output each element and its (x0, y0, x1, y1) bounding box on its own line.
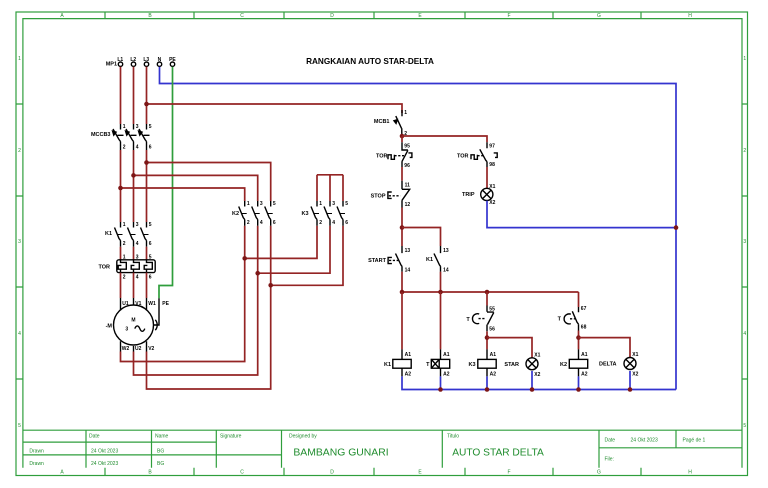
svg-text:11: 11 (405, 183, 411, 189)
node control tap to TOR 97 branch (400, 134, 405, 139)
svg-text:6: 6 (273, 220, 276, 226)
svg-text:Signature: Signature (220, 434, 242, 440)
wire tap L3 to K2 pole 5 (147, 163, 271, 202)
node bus K3 coil (485, 387, 490, 392)
wire T67 to K2 coil (578, 331, 580, 350)
svg-text:-M: -M (106, 324, 113, 330)
svg-text:6: 6 (149, 144, 152, 150)
svg-text:M: M (131, 318, 135, 324)
frame column letters bottom (60, 470, 692, 476)
frame row numbers left (18, 56, 21, 429)
wire PE to motor frame (black) (154, 298, 159, 330)
node W2/K3 (242, 256, 247, 261)
wire control rail (402, 291, 579, 293)
wire rail down to K1 coil (401, 292, 403, 349)
svg-text:A2: A2 (405, 371, 412, 377)
wire branch to K1 aux contact (402, 228, 441, 247)
wire PE (green) (159, 67, 173, 299)
wire motor U2 to K2 pole 4 (134, 226, 258, 375)
svg-text:BAMBANG GUNARI: BAMBANG GUNARI (293, 447, 388, 458)
svg-text:Date: Date (605, 437, 616, 443)
wire START to rail node (401, 272, 403, 292)
svg-text:F: F (507, 470, 510, 476)
svg-text:D: D (330, 470, 334, 476)
frame row ticks left (16, 104, 23, 379)
node rail at START (400, 290, 405, 295)
contactor K1 (105, 222, 152, 247)
node tap L3 (144, 160, 149, 165)
contactor K2 (delta) (232, 201, 276, 226)
svg-text:4: 4 (260, 220, 263, 226)
wire L3 tap to control circuit (147, 104, 403, 113)
wire branch to K3 pole 2 (245, 226, 317, 259)
lamp TRIP (462, 167, 496, 206)
svg-text:4: 4 (136, 275, 139, 281)
svg-text:5: 5 (345, 201, 348, 207)
thermal overload relay TOR (98, 254, 155, 280)
svg-text:5: 5 (149, 222, 152, 228)
svg-text:G: G (597, 13, 601, 19)
svg-text:K2: K2 (232, 211, 239, 217)
svg-text:A1: A1 (490, 352, 497, 358)
svg-text:A1: A1 (443, 352, 450, 358)
svg-text:1: 1 (123, 254, 126, 260)
coil K3 (468, 349, 496, 377)
svg-text:STAR: STAR (504, 362, 519, 368)
svg-text:TOR: TOR (98, 264, 110, 270)
wire branch to TOR 97 (402, 136, 487, 142)
node tap L1 (118, 186, 123, 191)
svg-text:K2: K2 (560, 362, 567, 368)
svg-text:BG: BG (157, 461, 164, 467)
svg-text:2: 2 (18, 148, 21, 154)
svg-text:13: 13 (443, 248, 449, 254)
svg-text:6: 6 (149, 275, 152, 281)
contact T 67-68 timed (558, 306, 587, 331)
svg-text:6: 6 (149, 241, 152, 247)
wire coils to neutral bus (blue) (402, 371, 676, 390)
svg-text:3: 3 (136, 124, 139, 130)
frame column ticks top (105, 12, 641, 19)
svg-text:RANGKAIAN AUTO STAR-DELTA: RANGKAIAN AUTO STAR-DELTA (306, 57, 434, 66)
svg-text:MCB1: MCB1 (374, 119, 390, 125)
wire K1 aux to rail (440, 272, 442, 292)
svg-text:V2: V2 (148, 346, 154, 352)
svg-text:C: C (240, 470, 244, 476)
wire T55 to K3 coil (486, 331, 488, 349)
svg-text:K3: K3 (468, 362, 475, 368)
wire TOR to motor V1 (133, 273, 135, 298)
svg-text:5: 5 (149, 124, 152, 130)
node L3 control tap (144, 102, 149, 107)
wire branch to K3 pole 4 (258, 226, 330, 273)
svg-text:3: 3 (260, 201, 263, 207)
svg-text:3: 3 (125, 327, 128, 333)
wire L1 to MCCB3 (120, 67, 122, 124)
contactor K3 (star) (301, 201, 348, 226)
svg-text:98: 98 (489, 162, 495, 168)
svg-text:K1: K1 (426, 257, 433, 263)
svg-text:BG: BG (157, 448, 164, 454)
node V2/K3 (268, 283, 273, 288)
breaker MCCB3 (91, 124, 152, 150)
node bus T coil (438, 387, 443, 392)
svg-text:3: 3 (136, 254, 139, 260)
wire MCCB3 to K1 phase 1 (120, 150, 122, 222)
svg-text:MP1: MP1 (106, 62, 117, 68)
frame row ticks right (742, 104, 748, 379)
svg-text:A2: A2 (581, 371, 588, 377)
wire TRIP to neutral (blue) (487, 201, 676, 228)
wire MCCB3 to K1 phase 3 (146, 150, 148, 222)
wire motor V2 to K2 pole 6 (147, 226, 271, 389)
lamp DELTA (599, 352, 639, 378)
svg-text:K1: K1 (105, 231, 112, 237)
coil K2 (560, 349, 588, 377)
svg-text:14: 14 (443, 267, 449, 273)
contact TOR 97-98 (457, 142, 497, 168)
svg-text:STOP: STOP (371, 194, 386, 200)
title block grid (23, 430, 742, 468)
svg-text:A2: A2 (490, 371, 497, 377)
svg-text:Date: Date (89, 434, 100, 440)
contact T 55-56 timed (466, 306, 495, 333)
svg-text:X1: X1 (632, 352, 638, 358)
wire K1 to TOR (121, 247, 147, 260)
wire N neutral bus (blue) (160, 67, 677, 390)
breaker MCB1 (374, 110, 407, 137)
node U2/K3 (255, 271, 260, 276)
svg-text:95: 95 (404, 144, 410, 150)
svg-text:H: H (688, 470, 692, 476)
frame column ticks bottom (105, 468, 641, 476)
svg-text:H: H (688, 13, 692, 19)
wire branch to STAR lamp (487, 338, 532, 358)
node rail at T contact (485, 290, 490, 295)
svg-text:1: 1 (18, 56, 21, 62)
svg-text:3: 3 (18, 239, 21, 245)
coil T (timer) (426, 349, 450, 377)
svg-text:TOR: TOR (376, 153, 388, 159)
svg-text:3: 3 (743, 239, 746, 245)
lamp STAR (504, 352, 540, 378)
svg-text:Name: Name (155, 434, 169, 440)
svg-text:1: 1 (247, 201, 250, 207)
svg-text:13: 13 (405, 248, 411, 254)
svg-text:A1: A1 (405, 352, 412, 358)
node DELTA lamp branch (576, 335, 581, 340)
pushbutton STOP (371, 181, 411, 208)
svg-text:Drawn: Drawn (29, 448, 44, 454)
svg-text:F: F (507, 13, 510, 19)
svg-text:U2: U2 (135, 346, 142, 352)
wire TOR to motor W1 (146, 273, 148, 298)
svg-text:C: C (240, 13, 244, 19)
svg-text:TOR: TOR (457, 153, 469, 159)
svg-text:X1: X1 (489, 184, 495, 190)
svg-text:4: 4 (136, 241, 139, 247)
svg-text:Pagé de 1: Pagé de 1 (683, 437, 706, 443)
svg-text:56: 56 (489, 327, 495, 333)
contact K1 aux 13-14 (426, 246, 449, 273)
svg-text:4: 4 (18, 331, 21, 337)
svg-text:4: 4 (332, 220, 335, 226)
svg-text:1: 1 (123, 124, 126, 130)
svg-text:X1: X1 (534, 352, 540, 358)
wire branch to K3 pole 6 (271, 226, 343, 285)
svg-text:TRIP: TRIP (462, 192, 475, 198)
svg-text:6: 6 (345, 220, 348, 226)
wire MCCB3 to K1 phase 2 (133, 150, 135, 222)
svg-text:5: 5 (743, 423, 746, 429)
svg-text:Titulo: Titulo (447, 434, 459, 440)
svg-text:D: D (330, 13, 334, 19)
node bus STAR lamp (530, 387, 535, 392)
svg-text:AUTO STAR DELTA: AUTO STAR DELTA (452, 448, 544, 459)
svg-text:1: 1 (123, 222, 126, 228)
node STAR lamp branch (485, 335, 490, 340)
svg-text:2: 2 (319, 220, 322, 226)
wire star point bar of K3 (317, 175, 343, 201)
svg-text:PE: PE (162, 301, 169, 307)
wire branch to DELTA lamp (579, 338, 631, 358)
node tap L2 (131, 173, 136, 178)
svg-text:X2: X2 (632, 372, 638, 378)
wire L2 to MCCB3 (133, 67, 135, 124)
svg-text:12: 12 (405, 202, 411, 208)
node blue neutral (674, 225, 679, 230)
wire TOR 96 to STOP (401, 167, 403, 181)
contact TOR 95-96 (376, 142, 412, 169)
svg-text:Designed by: Designed by (289, 434, 317, 440)
svg-text:X2: X2 (489, 200, 495, 206)
svg-text:5: 5 (149, 254, 152, 260)
svg-text:14: 14 (405, 267, 411, 273)
svg-text:5: 5 (18, 423, 21, 429)
svg-text:2: 2 (123, 241, 126, 247)
wire STOP to START, branch to K1 aux (401, 208, 403, 247)
svg-text:96: 96 (404, 163, 410, 169)
node seal-in branch (400, 225, 405, 230)
svg-text:K1: K1 (384, 362, 391, 368)
svg-text:2: 2 (123, 275, 126, 281)
svg-text:1: 1 (404, 110, 407, 116)
frame row numbers right (743, 56, 746, 429)
wire L3 to MCCB3 (146, 67, 148, 124)
svg-text:55: 55 (489, 307, 495, 313)
svg-text:67: 67 (581, 306, 587, 312)
svg-text:G: G (597, 470, 601, 476)
svg-text:A2: A2 (443, 371, 450, 377)
svg-text:START: START (368, 258, 387, 264)
svg-text:2: 2 (123, 144, 126, 150)
wire rail down to T 55 contact (486, 292, 488, 306)
svg-text:68: 68 (581, 325, 587, 331)
svg-text:5: 5 (273, 201, 276, 207)
svg-text:Drawn: Drawn (29, 461, 44, 467)
terminal block MP1 (L1 L2 L3 N PE) (106, 57, 177, 68)
svg-text:A1: A1 (581, 352, 588, 358)
svg-text:3: 3 (136, 222, 139, 228)
svg-text:MCCB3: MCCB3 (91, 132, 111, 138)
node bus K2 coil (576, 387, 581, 392)
svg-text:DELTA: DELTA (599, 362, 617, 368)
motor M 3~ (106, 298, 170, 352)
svg-text:24 Okt 2023: 24 Okt 2023 (91, 448, 118, 454)
title block texts (29, 434, 705, 468)
svg-text:W1: W1 (148, 301, 156, 307)
wire K1 aux down to T coil (440, 292, 442, 349)
svg-text:3: 3 (332, 201, 335, 207)
svg-text:97: 97 (489, 144, 495, 150)
pushbutton START (368, 246, 410, 273)
svg-text:W2: W2 (122, 346, 130, 352)
wire TOR to motor U1 (120, 273, 122, 298)
svg-text:2: 2 (247, 220, 250, 226)
wire rail to T 67 contact (578, 292, 580, 307)
svg-text:File:: File: (605, 457, 614, 463)
svg-text:1: 1 (743, 56, 746, 62)
node rail at K1 aux (438, 290, 443, 295)
node bus DELTA lamp (628, 387, 633, 392)
svg-text:2: 2 (743, 148, 746, 154)
svg-text:4: 4 (136, 144, 139, 150)
svg-text:4: 4 (743, 331, 746, 337)
svg-text:24 Okt 2023: 24 Okt 2023 (631, 437, 658, 443)
wire motor W2 to K2 pole 2 (121, 226, 245, 362)
wire tap L1 to K2 pole 1 (121, 188, 245, 201)
svg-text:24 Okt 2023: 24 Okt 2023 (91, 461, 118, 467)
svg-text:X2: X2 (534, 372, 540, 378)
svg-text:K3: K3 (301, 211, 308, 217)
wire MCB1 to TOR 95 (401, 136, 403, 142)
frame column letters top (60, 13, 692, 19)
wire tap L2 to K2 pole 3 (134, 175, 258, 201)
svg-text:1: 1 (319, 201, 322, 207)
coil K1 (384, 349, 411, 377)
